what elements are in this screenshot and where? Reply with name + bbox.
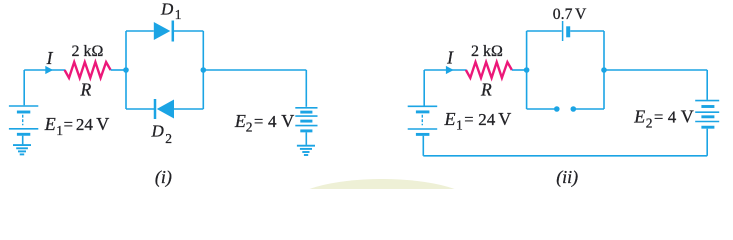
battery cell 0.7 V — [563, 21, 571, 41]
caption (i) — [155, 167, 172, 188]
decorative background ellipse — [290, 179, 474, 231]
wire — [424, 69, 466, 71]
wire right vertical of branch rectangle — [603, 31, 605, 109]
resistor R — [65, 62, 111, 78]
node open contact dot right — [571, 106, 577, 112]
wire top branch right — [570, 30, 604, 32]
svg-text:I: I — [46, 48, 54, 68]
svg-text:E: E — [44, 114, 56, 134]
current arrow I — [45, 66, 53, 74]
svg-text:E: E — [234, 111, 246, 131]
wire — [23, 70, 25, 105]
caption (ii) — [556, 167, 578, 188]
battery E1 (24 V) — [9, 106, 38, 144]
label D1 — [160, 0, 182, 22]
svg-text:2: 2 — [246, 120, 253, 135]
svg-text:D: D — [151, 122, 165, 141]
svg-text:=: = — [254, 112, 263, 131]
svg-text:1: 1 — [56, 123, 63, 138]
svg-text:V: V — [498, 109, 511, 129]
svg-text:(ii): (ii) — [556, 167, 578, 188]
wire bottom branch right — [174, 108, 203, 110]
svg-text:2: 2 — [646, 116, 653, 131]
resistor R — [466, 62, 512, 78]
svg-text:1: 1 — [456, 118, 463, 133]
svg-text:24: 24 — [478, 110, 496, 129]
label I — [446, 48, 454, 68]
svg-text:D: D — [160, 0, 174, 19]
label 0.7 V — [553, 6, 587, 23]
label E1 = 24 V — [444, 109, 512, 133]
wire bridge right vertical — [202, 31, 204, 109]
svg-text:=: = — [654, 108, 663, 127]
svg-text:1: 1 — [175, 7, 182, 22]
wire — [24, 69, 65, 71]
svg-text:V: V — [681, 107, 694, 127]
svg-text:=: = — [64, 115, 73, 134]
svg-text:4: 4 — [268, 112, 277, 131]
node junction dot left of branch pair — [524, 67, 530, 73]
node junction dot right of bridge — [201, 67, 207, 73]
node open contact dot left — [554, 106, 560, 112]
svg-text:2 kΩ: 2 kΩ — [71, 43, 103, 60]
svg-text:(i): (i) — [155, 167, 172, 188]
current arrow I — [446, 66, 454, 74]
svg-text:R: R — [79, 80, 91, 100]
wire top branch left — [126, 30, 154, 32]
wire top branch right — [174, 30, 203, 32]
label E2 = 4 V — [633, 107, 694, 131]
battery E2 (4 V) — [695, 101, 719, 156]
label 2 kOhm — [71, 43, 103, 60]
svg-text:0.7: 0.7 — [553, 6, 573, 23]
diode D1 — [154, 21, 173, 42]
label 2 kOhm — [471, 43, 503, 60]
battery E1 (24 V) — [408, 106, 438, 156]
svg-text:E: E — [444, 109, 456, 129]
wire — [111, 69, 126, 71]
wire left vertical of branch rectangle — [526, 31, 528, 109]
wire — [512, 69, 527, 71]
wire bottom branch left — [527, 108, 555, 110]
label I — [46, 48, 54, 68]
label E1 = 24 V — [44, 114, 110, 138]
wire — [706, 70, 708, 100]
svg-text:R: R — [480, 80, 492, 100]
label E2 = 4 V — [234, 111, 294, 135]
svg-text:V: V — [575, 6, 587, 23]
svg-text:24: 24 — [76, 115, 94, 134]
ground of E1 — [13, 145, 31, 154]
diode D2 — [155, 99, 174, 119]
svg-text:V: V — [96, 114, 109, 134]
wire bridge left vertical — [125, 31, 127, 109]
node junction dot left of bridge — [123, 67, 129, 73]
label D2 — [151, 122, 172, 146]
label R — [79, 80, 91, 100]
svg-text:E: E — [633, 107, 645, 127]
wire bottom branch left — [126, 108, 155, 110]
svg-text:=: = — [464, 110, 473, 129]
node junction dot right of branch pair — [601, 67, 607, 73]
svg-text:V: V — [281, 111, 294, 131]
svg-text:4: 4 — [668, 108, 677, 127]
svg-text:2 kΩ: 2 kΩ — [471, 43, 503, 60]
svg-text:I: I — [446, 48, 454, 68]
wire — [604, 69, 707, 71]
wire bottom rail — [423, 155, 707, 157]
ground of E2 — [297, 146, 315, 155]
wire — [203, 69, 306, 71]
battery E2 (4 V) — [295, 108, 317, 145]
wire top branch left — [527, 30, 562, 32]
wire bottom branch right — [576, 108, 604, 110]
wire — [305, 70, 307, 107]
label R — [480, 80, 492, 100]
svg-text:2: 2 — [165, 131, 172, 146]
wire — [423, 70, 425, 106]
